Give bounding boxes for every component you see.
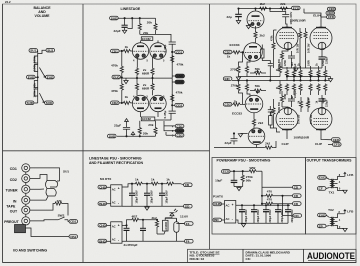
svg-text:TAPE: TAPE — [6, 204, 16, 208]
svg-text:ECD: ECD — [293, 6, 300, 10]
ground mid right — [328, 77, 332, 82]
svg-text:20k: 20k — [148, 123, 153, 127]
svg-text:EL84: EL84 — [313, 13, 321, 17]
resistor 1k right B — [276, 81, 282, 95]
svg-text:-: - — [232, 218, 233, 222]
svg-text:20k: 20k — [143, 132, 148, 136]
connector CHB psu1 — [98, 185, 111, 189]
wire mains to CB2 — [36, 236, 69, 238]
bridge rectifier psu2 — [225, 201, 236, 224]
svg-text:100µF 250V: 100µF 250V — [150, 190, 153, 203]
driver tube V3b — [244, 43, 263, 62]
wire: left border emphasized — [2, 4, 4, 263]
grid resistor 470k EL84 B1 — [270, 99, 275, 128]
label 100R 100R B — [294, 136, 310, 140]
svg-text:OUT: OUT — [10, 210, 18, 214]
wire ECD rail — [230, 170, 248, 172]
svg-text:10µF: 10µF — [215, 178, 222, 182]
LFB arrow tx2 — [344, 210, 354, 214]
svg-text:CD1: CD1 — [177, 124, 183, 128]
cathode resistor 10R B2 — [306, 97, 312, 124]
resistor 2k2 rail — [259, 2, 268, 10]
connector ECD B+ — [292, 6, 301, 10]
svg-text:GD: GD — [185, 205, 190, 209]
wire bridge+ to bus — [235, 204, 237, 206]
svg-text:100k 100k: 100k 100k — [32, 56, 36, 71]
svg-text:OUTPUT TRANSFORMERS: OUTPUT TRANSFORMERS — [307, 159, 353, 163]
svg-text:220µF 350V: 220µF 350V — [269, 209, 272, 222]
svg-text:TX2: TX2 — [328, 208, 334, 212]
svg-text:GND: GND — [177, 129, 185, 133]
svg-text:470R: 470R — [284, 60, 287, 66]
connector F4 — [185, 239, 194, 243]
pin labels TX2 — [339, 211, 341, 229]
svg-text:220µF 350V: 220µF 350V — [245, 209, 248, 222]
wire top-left connector to chain — [37, 51, 39, 54]
svg-text:LINESTAGE: LINESTAGE — [121, 7, 141, 11]
wire IN to switch — [30, 197, 48, 201]
svg-text:CD2: CD2 — [10, 178, 17, 182]
heater connector 4 CD1 — [172, 124, 184, 128]
psu2 ground bus — [236, 220, 288, 223]
connector GD psu1 right — [184, 204, 193, 208]
cap bank c4 — [275, 205, 284, 224]
svg-text:ECC83: ECC83 — [232, 111, 242, 115]
bank resistor c2 row2 — [291, 84, 296, 100]
svg-text:SUD: SUD — [109, 134, 116, 138]
pin labels A — [133, 60, 165, 63]
connector CD psu2 r1 — [262, 185, 301, 189]
capacitor 22uF rail A — [114, 18, 128, 33]
bridge rectifier M1 — [111, 185, 122, 206]
svg-text:2x4700µF: 2x4700µF — [124, 243, 138, 247]
tube V2a — [132, 95, 148, 117]
wire CD2 to switch — [30, 175, 47, 181]
svg-text:470k: 470k — [111, 63, 118, 67]
cap bank c1 — [239, 205, 248, 224]
resistor 1k right A — [276, 62, 282, 77]
svg-text:SW2: SW2 — [58, 214, 65, 218]
title block box — [188, 249, 357, 262]
svg-text:CD: CD — [294, 202, 299, 206]
svg-text:EUD: EUD — [28, 75, 35, 79]
cathode resistor V1a — [135, 68, 138, 79]
svg-text:220µF 350V: 220µF 350V — [281, 209, 284, 222]
heater connector 3 GND — [172, 129, 184, 133]
resistor 470k right ch A — [171, 55, 184, 67]
svg-text:-: - — [118, 238, 119, 242]
resistor 1k a psu1 — [135, 177, 144, 185]
connector CB1 upper — [69, 220, 78, 224]
svg-text:ECD: ECD — [223, 170, 230, 174]
connector CF tx1 — [317, 187, 329, 191]
bank resistor c5 row1 — [315, 63, 320, 81]
svg-text:CB: CB — [185, 183, 190, 187]
transformer TX2 — [330, 214, 345, 229]
bank resistor c4 row1 — [307, 60, 312, 80]
fil ground rail — [122, 240, 185, 242]
bank resistor c3 row1 — [297, 63, 302, 81]
smoothing rail psu1 — [122, 184, 135, 187]
svg-text:F3: F3 — [186, 222, 190, 226]
resistor 2k2 fil — [152, 216, 159, 234]
connector SU1 top-left — [29, 49, 38, 53]
pin labels B — [133, 96, 165, 99]
ground connector right ch B — [172, 80, 184, 84]
panel divider V2 — [209, 4, 211, 249]
svg-text:470R: 470R — [322, 60, 325, 66]
label 2x 680R ch B — [142, 83, 150, 90]
resistor 470k right ch B — [171, 90, 183, 102]
resistor 100R 5W B — [277, 91, 288, 113]
tube V1a — [132, 40, 148, 67]
output jack OUT — [10, 206, 30, 214]
EL84 tube B1 — [276, 107, 298, 135]
connector CB2 lower — [69, 235, 78, 239]
svg-text:1k: 1k — [234, 99, 238, 103]
ground psu1 — [145, 206, 149, 210]
psu1 ground bus — [122, 205, 184, 207]
svg-text:CED: CED — [329, 7, 335, 11]
cathode resistor 10R A1 — [296, 28, 302, 54]
svg-text:PREOUT: PREOUT — [4, 220, 19, 224]
connector mid-left EUD — [27, 75, 36, 79]
svg-text:470k: 470k — [270, 35, 273, 41]
svg-text:AC: AC — [112, 225, 116, 229]
grid resistor 470k EL84 A1 — [270, 30, 276, 68]
connector EID — [223, 77, 232, 81]
svg-text:GND: GND — [176, 80, 184, 84]
svg-text:+: + — [118, 187, 120, 191]
svg-text:AUDIONOTE: AUDIONOTE — [307, 251, 355, 261]
svg-text:1k: 1k — [125, 45, 129, 49]
smoothing cap 2 psu1 — [144, 183, 153, 206]
cap 220u A — [288, 51, 297, 71]
svg-text:24-2: 24-2 — [5, 0, 11, 4]
coupling cap 0.35u ch A — [163, 42, 176, 78]
connector ECD psu2 — [222, 170, 231, 174]
svg-text:AND FILAMENT RECTIFICATION: AND FILAMENT RECTIFICATION — [89, 161, 143, 165]
svg-text:CD2: CD2 — [112, 101, 118, 105]
node junctions rail A — [124, 18, 125, 19]
input jack CD1 — [10, 164, 30, 172]
bridge rectifier M2 — [111, 222, 122, 243]
resistor 27k — [54, 199, 63, 205]
connector CED2 EL84 A — [321, 15, 335, 19]
resistor 22k rail — [280, 2, 289, 10]
svg-text:EUD: EUD — [47, 75, 54, 79]
switch SW2 — [52, 214, 68, 220]
svg-text:LINESTAGE PSU - SMOOTHING: LINESTAGE PSU - SMOOTHING — [89, 156, 142, 160]
driver tube V3a ECC83 — [247, 9, 264, 28]
mid ground line — [122, 77, 172, 79]
svg-text:CHB: CHB — [214, 202, 221, 206]
connector GF2 — [333, 143, 342, 147]
cathode resistor V1b — [151, 68, 154, 79]
grid leak 270k amp A — [230, 52, 243, 81]
svg-text:CD: CD — [294, 186, 299, 190]
connector bottom-left SUD — [25, 101, 34, 105]
bank resistor c5 row2 — [315, 84, 320, 104]
svg-text:20k: 20k — [147, 20, 152, 24]
svg-text:-: - — [118, 201, 119, 205]
volume pot P2b — [34, 88, 37, 104]
ground wire at rail A — [128, 18, 133, 28]
svg-text:CD: CD — [294, 214, 299, 218]
svg-text:470k: 470k — [111, 89, 118, 93]
mid ground arrow — [124, 78, 128, 84]
svg-text:100µF 250V: 100µF 250V — [135, 190, 138, 203]
resistor 4R7 fil — [122, 215, 157, 226]
coupling cap block B — [269, 116, 277, 128]
svg-text:CD1: CD1 — [176, 50, 182, 54]
svg-text:1k: 1k — [151, 177, 155, 181]
svg-text:I/O AND SWITCHING: I/O AND SWITCHING — [13, 249, 47, 253]
resistor 270k fb B — [231, 81, 243, 105]
svg-text:22k: 22k — [280, 2, 285, 6]
bank resistor c1 row2 — [284, 84, 289, 100]
svg-text:270k: 270k — [230, 68, 237, 72]
regulator LD1084 — [157, 218, 168, 234]
svg-text:100µF 250V: 100µF 250V — [165, 190, 168, 203]
cap bank c2 — [251, 205, 260, 224]
connector CD psu2 r3 — [293, 202, 302, 206]
EL84 tube A2 — [310, 22, 332, 50]
cap 22uF ch B — [225, 133, 248, 145]
long feedback wire — [232, 80, 329, 82]
anode bus wire A — [140, 34, 171, 42]
input connector ch A — [111, 49, 120, 53]
wiper arrow bottom — [39, 93, 44, 103]
ground connector right ch A — [172, 74, 184, 78]
heater wires — [164, 121, 175, 135]
connector CED3 EL84 A — [328, 7, 336, 11]
svg-text:CLIP: CLIP — [315, 142, 322, 146]
balance pot P1a — [34, 54, 37, 64]
bank resistor c2 row1 — [291, 61, 296, 80]
svg-text:ECC82: ECC82 — [142, 37, 151, 41]
wire B+ rail channel A — [118, 17, 155, 19]
svg-text:+: + — [232, 203, 234, 207]
svg-text:1k: 1k — [227, 54, 231, 58]
svg-text:100R|100R: 100R|100R — [290, 18, 306, 22]
svg-text:ECC83: ECC83 — [230, 43, 240, 47]
svg-text:F4: F4 — [186, 240, 190, 244]
ground bus A — [282, 54, 322, 68]
svg-text:ECC82: ECC82 — [142, 117, 151, 121]
svg-text:EUD: EUD — [319, 176, 326, 180]
mid bus wire — [239, 76, 331, 78]
resistor 470 WW 2 — [261, 189, 292, 197]
connector SU2 top-right — [46, 48, 55, 52]
coupling cap plates B — [268, 106, 273, 116]
grid resistor 1k amp B — [232, 99, 245, 106]
svg-text:470: 470 — [267, 197, 272, 201]
svg-text:SUD: SUD — [46, 101, 53, 105]
anode bus wire B — [155, 113, 171, 120]
resistor 20k left A — [138, 18, 141, 34]
wiper arrow mid — [39, 68, 45, 78]
cathode resistor 10R B1 — [297, 97, 303, 124]
cap 220u A2 — [319, 50, 329, 68]
EL84 tube A1 — [276, 27, 298, 50]
svg-text:AC: AC — [112, 201, 116, 205]
svg-text:22µF: 22µF — [114, 29, 121, 33]
svg-text:2k2: 2k2 — [260, 34, 265, 38]
wire B+ rail channel B — [117, 135, 156, 137]
svg-text:1k: 1k — [166, 177, 170, 181]
grid leak 470k ch A — [111, 50, 123, 77]
fil output rail — [165, 218, 184, 223]
input connector ch A amp — [223, 50, 232, 54]
svg-text:EUD: EUD — [113, 75, 120, 79]
cap 10uF psu2 — [215, 171, 237, 186]
connector EP tx2 — [317, 224, 329, 228]
svg-text:SU2: SU2 — [47, 49, 53, 53]
tube label box ECC82 B — [141, 117, 155, 121]
wire to CB connector — [175, 184, 184, 185]
input connector ch B amp — [223, 103, 232, 107]
svg-text:0.35µ: 0.35µ — [163, 110, 167, 118]
resistor 20k right B — [154, 121, 157, 137]
input jack IN — [13, 196, 30, 204]
label 100R 100R between EL84 A — [290, 18, 306, 22]
svg-text:EP: EP — [319, 224, 323, 228]
grid resistor 1k amp A — [227, 51, 244, 59]
fil cap 1 — [124, 225, 130, 242]
connector CHB psu2 — [213, 202, 225, 206]
feedback pot 50k WW A — [250, 67, 266, 74]
wire SW2 to CB1 — [68, 220, 69, 222]
smoothing cap 3 psu1 — [159, 183, 168, 206]
wire 27k to SW2 — [63, 204, 68, 216]
svg-text:1k: 1k — [125, 95, 129, 99]
ground arrow up rail B — [131, 132, 135, 137]
svg-text:680R: 680R — [142, 72, 150, 76]
pin labels TX1 — [339, 174, 341, 191]
grid resistor 1k ch B — [119, 95, 133, 105]
svg-text:220µF: 220µF — [293, 90, 297, 98]
cap bank c3 — [263, 205, 272, 224]
svg-text:VOLUME: VOLUME — [35, 14, 51, 18]
wire CD1 to switch — [30, 168, 60, 181]
svg-text:56k: 56k — [246, 179, 251, 183]
svg-text:POWERAMP PSU - SMOOTHING: POWERAMP PSU - SMOOTHING — [217, 159, 271, 163]
connector CF2 — [332, 138, 341, 142]
driver tube V4a — [245, 95, 263, 118]
connector BD psu2 — [213, 218, 225, 222]
output connector ch B — [172, 103, 184, 107]
wire top-right connector to chain — [38, 50, 46, 53]
EL84 tube B2 — [310, 107, 332, 135]
grid wire EL84 B1 — [277, 128, 281, 132]
svg-text:SU1: SU1 — [63, 169, 69, 173]
fil cap 2 — [140, 219, 146, 241]
svg-text:470k: 470k — [176, 90, 183, 94]
grid leak 470k ch B — [111, 78, 123, 103]
svg-text:100k 100k: 100k 100k — [32, 83, 36, 98]
resistor 100R 5W A — [277, 50, 288, 70]
cap 100n plates A — [268, 64, 273, 81]
capacitor 22u rail A — [227, 9, 242, 24]
cathode resistor 10R A2 — [304, 28, 310, 54]
svg-text:CD: CD — [294, 194, 299, 198]
svg-text:CD2: CD2 — [176, 104, 182, 108]
svg-text:220µF 350V: 220µF 350V — [257, 209, 260, 222]
connector CD psu2 r2 — [293, 194, 302, 198]
cathode resistor ch B driver — [245, 81, 250, 97]
svg-text:GND: GND — [177, 74, 185, 78]
tube V2b — [150, 95, 166, 117]
svg-text:CED: CED — [333, 138, 340, 142]
grid resistor 1k ch A — [119, 45, 133, 52]
resistor 2k2 bottom B — [214, 141, 276, 149]
tube label box ECC82 A — [141, 37, 153, 41]
driver tube V4b — [248, 128, 265, 148]
svg-text:100R: 100R — [307, 60, 310, 66]
svg-text:10R 1W: 10R 1W — [306, 43, 310, 53]
smoothing cap 1 psu1 — [129, 183, 138, 206]
connector F3 — [179, 222, 193, 226]
svg-text:SU1: SU1 — [30, 49, 36, 53]
panel divider V1 — [82, 4, 84, 263]
svg-text:2k2: 2k2 — [265, 142, 270, 146]
connector mid-right EUD — [46, 75, 55, 79]
main HT bus psu2 — [236, 171, 290, 205]
capacitor 22uF rail B — [114, 121, 130, 136]
ground tx2 — [343, 228, 347, 231]
connector CD psu2 r4 — [282, 195, 302, 218]
cathode resistor ch A driver — [245, 59, 250, 77]
ground psu2 left — [234, 187, 243, 191]
svg-text:2k2: 2k2 — [258, 121, 263, 125]
connector SUD top B+ — [110, 16, 119, 20]
svg-text:LFB: LFB — [347, 173, 354, 177]
coupling cap block A — [261, 45, 271, 64]
panel divider H1 — [3, 150, 210, 152]
label 2x 680R ch A — [142, 68, 150, 75]
svg-text:4k7: 4k7 — [291, 61, 294, 66]
connector CHD fil — [98, 223, 111, 227]
svg-text:LD1084: LD1084 — [164, 221, 168, 231]
connector CB psu1 — [184, 183, 193, 187]
svg-text:+: + — [118, 224, 120, 228]
cathode resistor 2k2 V3a — [254, 26, 265, 43]
svg-text:CD2: CD2 — [177, 134, 183, 138]
bank resistor c6 row2 — [322, 84, 327, 104]
resistor 1k c psu1 — [159, 177, 175, 185]
svg-text:AC: AC — [112, 238, 116, 242]
connector CED EL84 A — [313, 11, 334, 17]
svg-text:EID: EID — [225, 77, 231, 81]
input jack CD2 — [10, 174, 30, 182]
connector bottom-right SUD — [45, 101, 54, 105]
resistor 270k 56k psu2 — [241, 171, 253, 186]
input connector ch B — [111, 101, 120, 105]
output connector ch A — [172, 50, 184, 54]
transformer TX1 — [330, 177, 345, 191]
svg-text:SUD: SUD — [111, 16, 118, 20]
svg-text:CD2: CD2 — [225, 103, 231, 107]
tube V1b — [150, 40, 166, 67]
resistor 20k left B — [138, 121, 141, 137]
rotary selector switch SW1 — [46, 181, 58, 197]
ground V3a cathode — [246, 25, 251, 29]
cap 220u B2 — [319, 95, 329, 107]
connector SUD bottom B+ — [108, 134, 117, 138]
bank resistor c6 row1 — [322, 60, 327, 80]
bank resistor c1 row1 — [284, 60, 289, 80]
